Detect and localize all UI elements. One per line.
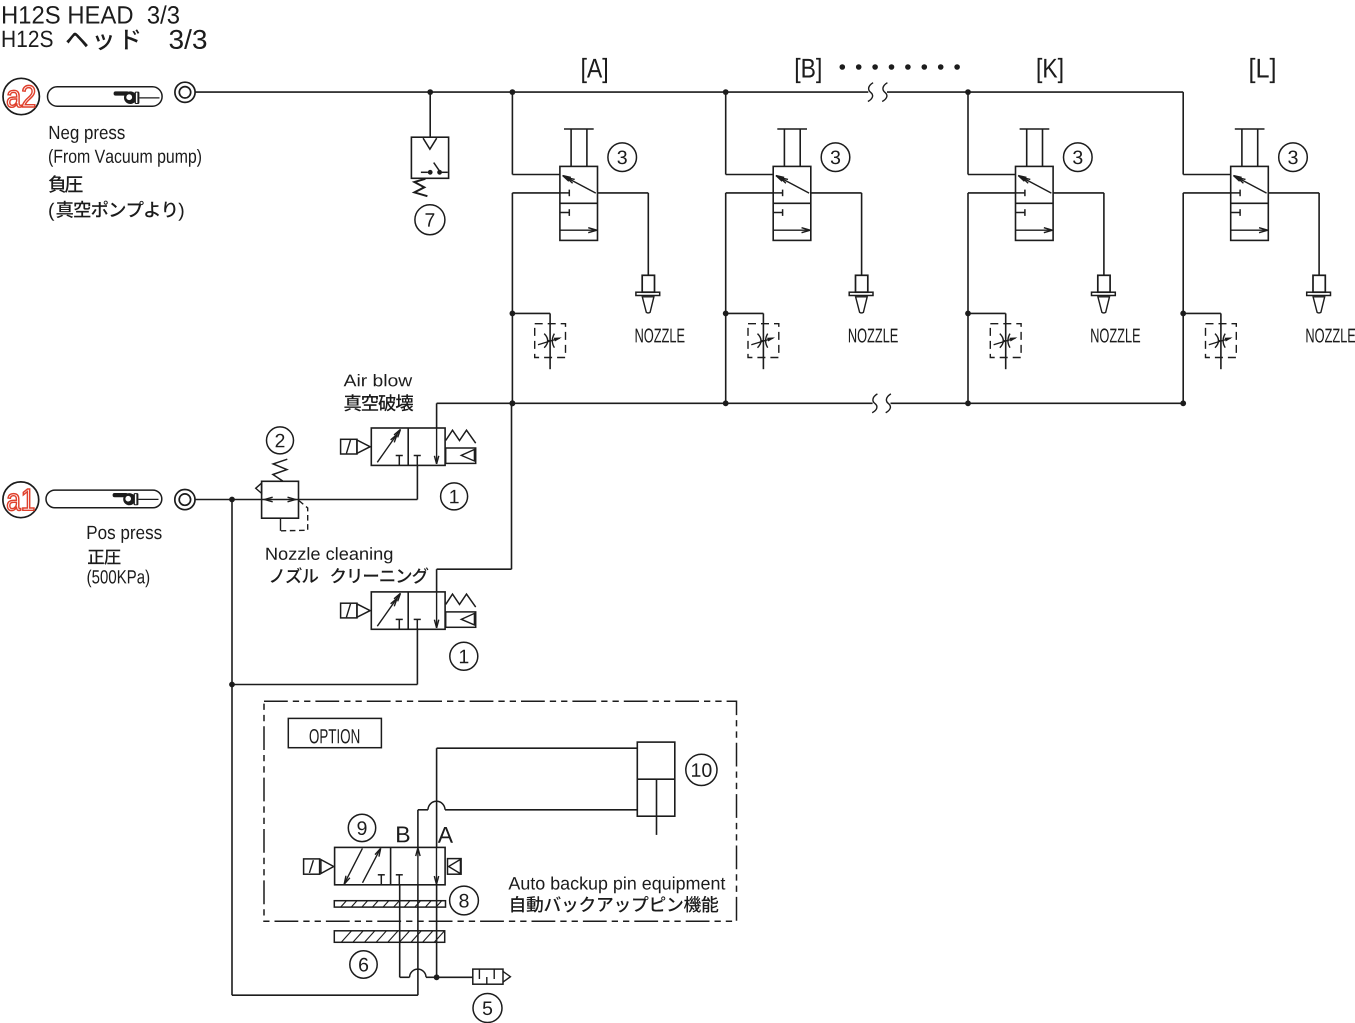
- wire nozzle-cleaning output up to bus: [436, 569, 438, 592]
- wire valve supply port / down leg (col L): [1183, 192, 1231, 194]
- junction node on air-blow bus (col L): [1180, 400, 1186, 406]
- wire junction to silencer: [437, 976, 473, 978]
- break mark on neg bus (left): [868, 83, 873, 102]
- wire supply to valve 9: [417, 885, 419, 995]
- label circle 8: [450, 886, 479, 915]
- valve 3 (col L) top-cell flow path: [1235, 176, 1267, 193]
- junction node flow-control branch (col B): [723, 311, 729, 317]
- wire air-blow bus left segment: [437, 402, 873, 404]
- wire valve supply port / down leg (col K): [968, 192, 1016, 194]
- valve 3 (col K) top-cell flow path: [1019, 176, 1051, 193]
- connector label a1 (red, circled): [3, 482, 39, 518]
- a1 stadium symbol with pointing hand: [46, 490, 162, 508]
- label circle 5: [473, 994, 502, 1023]
- connector label a2 (red, circled): [3, 78, 39, 114]
- valve 9 solenoid: [304, 859, 320, 874]
- pilot operated valve 3 (col A) body: [560, 166, 598, 240]
- wire nozzle-cleaning supply from a1 branch: [231, 500, 233, 685]
- label circle 9: [348, 814, 375, 841]
- junction node a1 branch: [229, 497, 235, 503]
- label Neg press (From Vacuum pump): [50, 126, 125, 143]
- label Pos press 正圧 (500KPa): [88, 526, 162, 543]
- label NOZZLE (col A): [636, 328, 685, 342]
- flow control valve (col L): [1183, 312, 1221, 314]
- valve 9 spring box: [448, 859, 462, 875]
- junction node neg bus column B: [723, 89, 729, 95]
- valve 3 (col A) bottom-cell blocked port and exhaust path: [560, 212, 569, 214]
- pressure switch 7 spring: [414, 179, 427, 196]
- label circle 3 (col A): [608, 143, 637, 172]
- label circle 10: [686, 754, 717, 785]
- wire neg-press bus left segment: [195, 91, 868, 93]
- label Nozzle cleaning ノズル クリーニング: [266, 547, 392, 563]
- nozzle symbol (col K): [1098, 275, 1110, 292]
- cylinder 10 (backup pin cylinder): [637, 742, 675, 816]
- flow control valve (col A): [512, 312, 550, 314]
- wire bus down to valve pilot port (col A): [511, 92, 513, 174]
- nozzle symbol (col A): [642, 275, 654, 292]
- label NOZZLE (col L): [1306, 328, 1355, 342]
- pilot operated valve 3 (col B) body: [773, 166, 811, 240]
- flow control valve (col B): [726, 312, 764, 314]
- wire valve 9 port to exhaust line (with hop): [399, 885, 401, 978]
- flow control valve (col K): [968, 312, 1006, 314]
- label circle 3 (col B): [821, 143, 850, 172]
- title text H12S HEAD 3/3: [3, 5, 179, 23]
- label Auto backup pin equipment: [508, 877, 725, 894]
- column header [L]: [1250, 58, 1274, 83]
- label 負圧 (真空ポンプより): [49, 175, 83, 193]
- valve 3 (col A) top-cell flow path: [564, 176, 596, 193]
- label 自動バックアップピン機能: [511, 896, 718, 913]
- wire neg-press bus right segment: [887, 91, 1183, 93]
- solenoid valve 1b (nozzle cleaning): [371, 592, 445, 629]
- plate 8 (thin hatched bar): [334, 901, 445, 907]
- valve 3 (col B) bottom-cell blocked port and exhaust path: [773, 212, 782, 214]
- junction node at pressure switch: [427, 89, 433, 95]
- label circle 6: [350, 951, 377, 978]
- wire bus down to valve pilot port (col L): [1182, 92, 1184, 174]
- nozzle symbol (col B): [856, 275, 868, 292]
- label Air blow 真空破壊: [344, 374, 413, 387]
- label circle 1 (nozzle cleaning): [450, 642, 478, 670]
- junction node neg bus column K: [965, 89, 971, 95]
- label circle 7: [415, 205, 445, 235]
- column header [B]: [796, 58, 821, 83]
- wire valve to nozzle (col K): [1053, 192, 1104, 194]
- nozzle symbol (col L): [1313, 275, 1325, 292]
- break mark on air-blow bus (left): [872, 394, 877, 413]
- silencer 5: [473, 969, 503, 984]
- wire valve to nozzle (col A): [598, 192, 649, 194]
- label NOZZLE (col B): [849, 328, 898, 342]
- port label A: [438, 827, 453, 843]
- column header [A]: [582, 58, 607, 83]
- valve 3 (col A) pilot actuator: [564, 128, 594, 130]
- valve 3 (col K) bottom-cell blocked port and exhaust path: [1016, 212, 1025, 214]
- wire valve to nozzle (col L): [1268, 192, 1319, 194]
- junction node neg bus column A: [510, 89, 516, 95]
- a2 stadium symbol with pointing hand: [48, 87, 163, 106]
- ellipsis dots between B and K: [840, 64, 846, 70]
- wire valve to nozzle (col B): [811, 192, 862, 194]
- port a2 double circle: [175, 82, 195, 102]
- wire pipe A valve to cylinder top: [436, 748, 438, 847]
- regulator 2 body: [262, 481, 299, 518]
- port a1 double circle: [175, 490, 195, 510]
- wire pipe B valve to cylinder bottom (with hop): [417, 810, 419, 848]
- junction node exhaust: [434, 974, 440, 980]
- junction node air-blow output: [510, 400, 516, 406]
- valve 3 (col K) pilot actuator: [1020, 128, 1050, 130]
- port label B: [397, 827, 409, 843]
- solenoid valve 1 (air blow): [371, 428, 445, 465]
- label circle 3 (col L): [1279, 143, 1308, 172]
- pilot operated valve 3 (col L) body: [1231, 166, 1269, 240]
- wire valve supply port / down leg (col B): [726, 192, 774, 194]
- junction node flow-control branch (col A): [510, 311, 516, 317]
- title text H12S ヘッド 3/3: [3, 31, 53, 48]
- plate 6 (hatched bar): [334, 931, 444, 943]
- label NOZZLE (col K): [1091, 328, 1140, 342]
- label circle 3 (col K): [1064, 143, 1093, 172]
- junction node on air-blow bus (col K): [965, 400, 971, 406]
- valve 3 (col L) bottom-cell blocked port and exhaust path: [1231, 212, 1240, 214]
- valve 9 left-cell crossed paths: [345, 848, 363, 883]
- wire a1 to regulator: [195, 499, 262, 501]
- break mark on air-blow bus (right): [886, 394, 891, 413]
- label circle 2: [267, 427, 294, 454]
- wire regulator to air-blow valve: [299, 499, 418, 501]
- label circle 1 (air blow): [441, 483, 468, 510]
- wire air-blow bus right segment: [891, 402, 1184, 404]
- OPTION dash-dot border: [264, 701, 737, 921]
- wire air-blow valve output to bus: [436, 403, 438, 428]
- junction node flow-control branch (col L): [1180, 311, 1186, 317]
- pilot operated valve 3 (col K) body: [1016, 166, 1054, 240]
- OPTION label box: [288, 718, 381, 747]
- valve 3 (col L) pilot actuator: [1235, 128, 1265, 130]
- solenoid valve 9 body: [335, 847, 446, 884]
- wire bus down to valve pilot port (col K): [967, 92, 969, 174]
- wire valve supply port / down leg (col A): [512, 192, 560, 194]
- valve 9 right-cell paths: [396, 874, 403, 876]
- junction node flow-control branch (col K): [965, 311, 971, 317]
- wire bus down to valve pilot port (col B): [725, 92, 727, 174]
- wire bus to pressure switch: [429, 92, 431, 137]
- valve 3 (col B) pilot actuator: [777, 128, 807, 130]
- junction node on air-blow bus (col B): [723, 400, 729, 406]
- pressure switch 7 body: [411, 137, 448, 178]
- break mark on neg bus (right): [882, 83, 887, 102]
- valve 3 (col B) top-cell flow path: [777, 176, 809, 193]
- column header [K]: [1038, 58, 1063, 83]
- wire valve 9 A-port down to junction: [436, 885, 438, 978]
- junction node on air-blow bus (col A): [510, 400, 516, 406]
